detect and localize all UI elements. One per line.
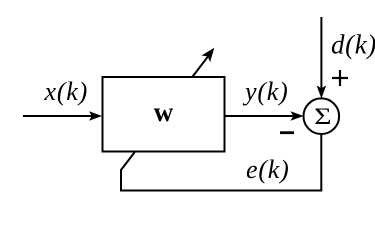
svg-text:w: w xyxy=(154,97,174,127)
wire: output y(k) arrow into summing node xyxy=(225,115,295,117)
svg-text:d(k): d(k) xyxy=(331,30,375,60)
minus sign at y(k) input of summing node xyxy=(280,131,294,134)
summing node sigma xyxy=(304,98,340,134)
svg-text:y(k): y(k) xyxy=(242,77,289,106)
svg-text:x(k): x(k) xyxy=(44,77,89,106)
svg-text:e(k): e(k) xyxy=(246,155,290,184)
wire: desired signal d(k) arrow down into summing node xyxy=(320,17,322,89)
plus sign at summing node xyxy=(332,77,348,79)
svg-text:Σ: Σ xyxy=(314,104,331,130)
arrowhead of adaptation arrow (diagonal, pointing up-right) xyxy=(202,48,215,62)
wire: input x(k) arrow into block xyxy=(23,115,92,117)
filter block W xyxy=(103,77,225,152)
wire: adaptation feedback path e(k): down from sigma, along bottom, up, diagonal behind box xyxy=(121,55,321,191)
